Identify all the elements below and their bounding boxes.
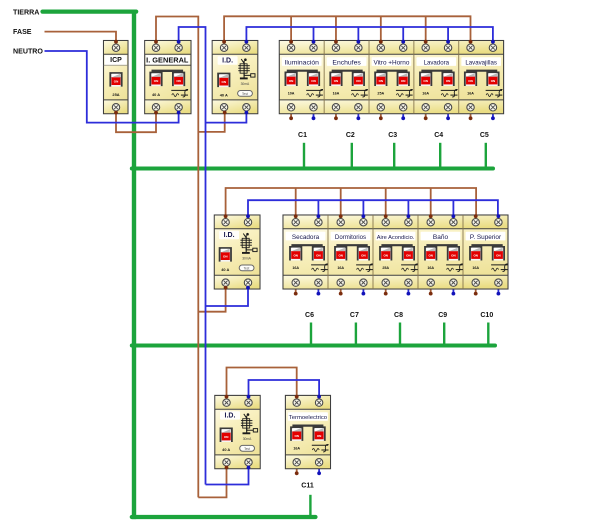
wire I.GENERAL fase out to vertical bus [156, 17, 198, 498]
svg-text:16A: 16A [422, 92, 429, 96]
svg-text:Test: Test [242, 92, 248, 96]
svg-text:Lavadora: Lavadora [424, 59, 450, 66]
svg-text:Dormitorios: Dormitorios [335, 234, 366, 241]
wire circuit C5 neutro stub [492, 114, 494, 119]
two-pole switch bar I. GENERAL [152, 70, 184, 72]
svg-text:40 A: 40 A [221, 267, 229, 272]
wire fase drop row2 breaker [340, 188, 342, 215]
two-pole switch bar Q8 [381, 244, 412, 246]
wire circuit C5 fase stub [470, 114, 472, 119]
wire neutro drop row2 breaker [407, 200, 409, 215]
wire circuit C11 fase stub [296, 469, 298, 474]
svg-text:C2: C2 [346, 132, 355, 139]
svg-text:NEUTRO: NEUTRO [13, 48, 43, 56]
breaker Q11 Termoelectrico 16A [288, 399, 329, 466]
svg-text:10A: 10A [288, 92, 295, 96]
wire earth stub C7 [355, 323, 357, 345]
wire neutro drop row2 breaker [317, 200, 319, 215]
wire circuit C4 fase stub [425, 114, 427, 119]
svg-text:Enchufes: Enchufes [332, 59, 361, 66]
svg-text:Iluminación: Iluminación [285, 59, 320, 66]
wire earth stub C6 [310, 323, 312, 345]
wire neutro row3 I.D. to Termoelectrico [249, 380, 320, 395]
wire circuit C9 neutro stub [452, 289, 454, 294]
svg-text:C7: C7 [350, 312, 359, 319]
wire neutro drop row1 breaker [357, 27, 359, 41]
breaker group row1 (circuits C1-C5) [279, 41, 503, 114]
differential trip symbol I.D. U14 [241, 413, 258, 433]
wire circuit C6 neutro stub [317, 289, 319, 294]
svg-text:I.D.: I.D. [222, 58, 233, 65]
wire fase drop row2 breaker [430, 188, 432, 215]
wire earth stub C11 [309, 495, 311, 516]
breaker ICP (interruptor de control de potencia) [104, 41, 129, 114]
svg-text:25A: 25A [112, 92, 119, 97]
wire neutro drop row1 breaker [313, 27, 315, 41]
svg-text:25A: 25A [382, 266, 389, 270]
svg-text:Test: Test [244, 447, 250, 451]
RCD I.D. U2 (interruptor diferencial) 40A 30mA [212, 41, 258, 114]
junction dots fase (brown) [114, 40, 118, 44]
svg-text:16A: 16A [337, 266, 344, 270]
wire earth stub C3 [393, 143, 395, 168]
svg-text:C8: C8 [394, 312, 403, 319]
wire fase drop row1 breaker [290, 16, 292, 40]
wire earth stub C2 [351, 143, 353, 168]
wire fase bus row1 top [224, 16, 470, 40]
svg-text:40 A: 40 A [220, 92, 228, 97]
breaker I. GENERAL (interruptor general automatico) 40A [145, 41, 191, 114]
RCD I.D. U8 (interruptor diferencial) 40A 30mA [214, 215, 260, 289]
svg-text:16A: 16A [293, 447, 300, 451]
wire circuit C3 fase stub [380, 114, 382, 119]
svg-text:I.D.: I.D. [225, 412, 236, 419]
svg-text:25A: 25A [377, 92, 384, 96]
wire neutro branch to I.D.3 bottom [206, 469, 249, 485]
svg-text:C10: C10 [480, 312, 493, 319]
wire circuit C8 fase stub [385, 289, 387, 294]
wire fase drop row2 breaker [295, 188, 297, 215]
wire circuit C11 neutro stub [318, 469, 320, 474]
svg-text:16A: 16A [472, 266, 479, 270]
svg-text:Baño: Baño [433, 234, 449, 241]
breaker Q8 Aire Acondicio. 25A [376, 219, 418, 287]
svg-text:FASE: FASE [13, 28, 32, 36]
wire ICP out to I.GENERAL in [116, 114, 156, 133]
svg-text:Termoelectrico: Termoelectrico [289, 415, 328, 421]
breaker group row2 (circuits C6-C10) [283, 215, 508, 289]
svg-text:40 A: 40 A [152, 92, 160, 97]
breaker Q5 Lavavajillas 16A [461, 44, 502, 111]
svg-text:C4: C4 [434, 132, 443, 139]
svg-text:C9: C9 [438, 312, 447, 319]
wire circuit C7 fase stub [340, 289, 342, 294]
svg-text:C6: C6 [305, 312, 314, 319]
wire tierra bus bottom [132, 515, 316, 519]
svg-text:C11: C11 [301, 482, 314, 489]
wire earth stub C1 [303, 143, 305, 168]
wire circuit C2 neutro stub [357, 114, 359, 119]
svg-text:I. GENERAL: I. GENERAL [146, 56, 189, 65]
wire tierra bus row1 [132, 167, 493, 171]
svg-text:ICP: ICP [110, 57, 122, 64]
two-pole switch bar Q2 [332, 70, 363, 72]
svg-text:Lavavajillas: Lavavajillas [465, 59, 497, 66]
wire fase branch to I.D.1 bottom [198, 114, 224, 132]
svg-text:16A: 16A [292, 266, 299, 270]
wire fase drop row1 breaker [380, 16, 382, 40]
wire circuit C2 fase stub [335, 114, 337, 119]
wire circuit C10 neutro stub [497, 289, 499, 294]
wire circuit C8 neutro stub [407, 289, 409, 294]
wire fase branch to I.D.3 bottom [198, 469, 226, 498]
svg-text:30mA: 30mA [242, 256, 251, 260]
wire circuit C10 fase stub [475, 289, 477, 294]
test button I.D. U14 [240, 445, 255, 451]
wire earth stub C9 [443, 323, 445, 345]
wire circuit C3 neutro stub [402, 114, 404, 119]
wire earth stub C10 [487, 323, 489, 345]
wire neutro bus row1 top [246, 27, 493, 41]
wire neutro drop row1 breaker [447, 27, 449, 41]
two-pole switch bar Q9 [426, 244, 457, 246]
wire fase drop row2 breaker [385, 188, 387, 215]
svg-text:16A: 16A [427, 266, 434, 270]
breaker Q9 Ba&#241;o 16A [421, 219, 463, 287]
breaker Q2 Enchufes 16A [327, 44, 368, 111]
breaker Q7 Dormitorios 16A [331, 219, 373, 287]
two-pole switch bar Q7 [336, 244, 367, 246]
wire neutro drop row1 breaker [402, 27, 404, 41]
svg-text:Vitro +Horno: Vitro +Horno [373, 59, 409, 66]
test button I.D. U2 [238, 91, 253, 97]
two-pole switch bar Q11 [292, 425, 323, 427]
svg-text:C1: C1 [298, 132, 307, 139]
svg-text:P. Superior: P. Superior [470, 234, 502, 241]
two-pole switch bar Q10 [471, 244, 502, 246]
wire neutro branch to I.D.2 bottom [206, 289, 249, 306]
wire neutro drop row2 breaker [452, 200, 454, 215]
svg-text:Secadora: Secadora [292, 234, 320, 241]
wire fase drop row1 breaker [425, 16, 427, 40]
svg-text:Aire Acondicio.: Aire Acondicio. [377, 235, 415, 241]
wire circuit C7 neutro stub [362, 289, 364, 294]
svg-text:Test: Test [244, 266, 250, 270]
breaker group row3 (circuit C11) [285, 395, 330, 468]
breaker Q3 Vitro +Horno 25A [372, 44, 413, 111]
wire I.GENERAL neutro out to vertical bus [179, 27, 206, 485]
junction dots neutro (blue) [177, 111, 181, 115]
wire fase drop row1 breaker [335, 16, 337, 40]
two-pole switch bar Q3 [377, 70, 408, 72]
svg-text:30mA: 30mA [241, 82, 250, 86]
wire tierra horizontal top [43, 10, 137, 14]
wire fase row3 I.D. to Termoelectrico [227, 368, 297, 396]
wire fase input to ICP [45, 32, 117, 41]
test button I.D. U8 [239, 265, 254, 271]
differential trip symbol I.D. U2 [238, 58, 255, 78]
wire tierra bus row2 [132, 344, 495, 348]
wire earth stub C4 [439, 143, 441, 168]
wire neutro drop row2 breaker [362, 200, 364, 215]
wire tierra main vertical [132, 10, 136, 520]
wire neutro input to I.GENERAL bottom [45, 51, 179, 123]
wire neutro branch to I.D.1 bottom [206, 114, 247, 123]
breaker Q1 Iluminaci&#243;n 10A [282, 44, 323, 111]
wire fase branch to I.D.2 bottom [198, 289, 225, 312]
wire fase bus row2 top [226, 188, 477, 215]
breaker Q10 P. Superior 16A [466, 219, 508, 287]
svg-text:I.D.: I.D. [224, 232, 235, 239]
two-pole switch bar Q1 [287, 70, 318, 72]
svg-text:C5: C5 [480, 132, 489, 139]
wire circuit C4 neutro stub [447, 114, 449, 119]
RCD I.D. U14 (interruptor diferencial) 40A 30mA [215, 395, 260, 468]
wire circuit C9 fase stub [430, 289, 432, 294]
wire circuit C1 neutro stub [313, 114, 315, 119]
svg-text:40 A: 40 A [222, 447, 230, 452]
wire neutro bus row2 top [248, 200, 498, 215]
wire circuit C1 fase stub [290, 114, 292, 119]
svg-text:30mA: 30mA [243, 437, 252, 441]
breaker Q6 Secadora 16A [286, 219, 328, 287]
svg-text:TIERRA: TIERRA [13, 8, 39, 16]
svg-text:C3: C3 [388, 132, 397, 139]
two-pole switch bar Q5 [466, 70, 497, 72]
differential trip symbol I.D. U8 [240, 233, 257, 253]
two-pole switch bar Q4 [421, 70, 452, 72]
two-pole switch bar Q6 [291, 244, 322, 246]
svg-text:16A: 16A [333, 92, 340, 96]
wire circuit C6 fase stub [295, 289, 297, 294]
breaker Q4 Lavadora 16A [416, 44, 457, 111]
wire earth stub C5 [485, 143, 487, 168]
wire earth stub C8 [399, 323, 401, 345]
svg-text:16A: 16A [467, 92, 474, 96]
